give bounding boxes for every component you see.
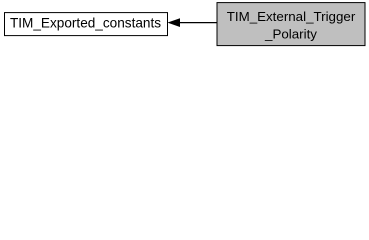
- svg-text:TIM_External_Trigger: TIM_External_Trigger: [227, 9, 356, 24]
- svg-text:_Polarity: _Polarity: [264, 26, 317, 41]
- svg-text:TIM_Exported_constants: TIM_Exported_constants: [10, 15, 161, 30]
